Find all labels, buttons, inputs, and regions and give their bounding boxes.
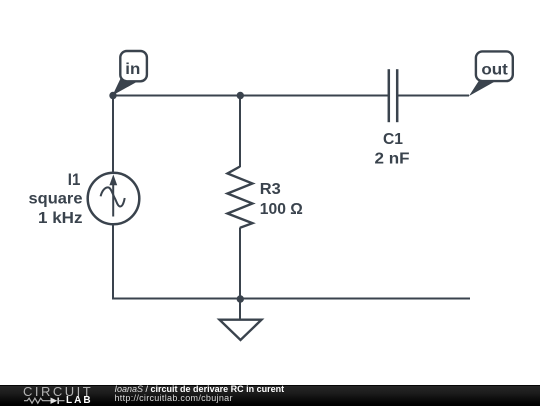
svg-text:100 Ω: 100 Ω [260, 201, 303, 218]
node flag out: box [476, 51, 513, 81]
ground [220, 320, 262, 340]
CircuitLab logo wordmark [23, 385, 93, 398]
resistor R3 [228, 167, 253, 228]
current source I1 [88, 173, 140, 225]
svg-text:2 nF: 2 nF [375, 151, 410, 168]
wire top rail: node in to C1 left plate [112, 95, 388, 97]
node in junction dot [109, 92, 116, 99]
wire: C1 right plate to out node [398, 95, 469, 97]
svg-text:C1: C1 [383, 131, 403, 148]
footer bar [0, 385, 540, 406]
svg-text:R3: R3 [260, 181, 281, 198]
wire: in node down to I1 top [112, 96, 114, 174]
junction dot top of R3 [237, 92, 244, 99]
I1 arrow head [110, 176, 116, 185]
credits text [115, 385, 285, 404]
node flag in: tail [113, 78, 138, 96]
I1 arrow shaft [112, 184, 114, 217]
junction dot ground net [237, 295, 244, 302]
svg-text:square: square [29, 191, 83, 208]
svg-text:1 kHz: 1 kHz [38, 210, 83, 227]
svg-text:I1: I1 [68, 171, 81, 189]
I1 sine wave [101, 187, 125, 206]
CircuitLab logo resistor-diode glyph [24, 396, 66, 405]
wire bottom rail [112, 298, 470, 300]
node flag in: box [120, 51, 147, 81]
wire: ground stub [239, 299, 241, 320]
CircuitLab logo LAB [66, 396, 93, 406]
wire: top rail down to R3 top [239, 96, 241, 168]
wire: I1 bottom to bottom rail [112, 224, 114, 300]
svg-text:out: out [481, 62, 508, 79]
capacitor C1 [389, 69, 397, 122]
wire: R3 bottom to bottom rail [239, 228, 241, 299]
node flag out: tail [469, 81, 494, 97]
svg-text:in: in [125, 61, 140, 78]
